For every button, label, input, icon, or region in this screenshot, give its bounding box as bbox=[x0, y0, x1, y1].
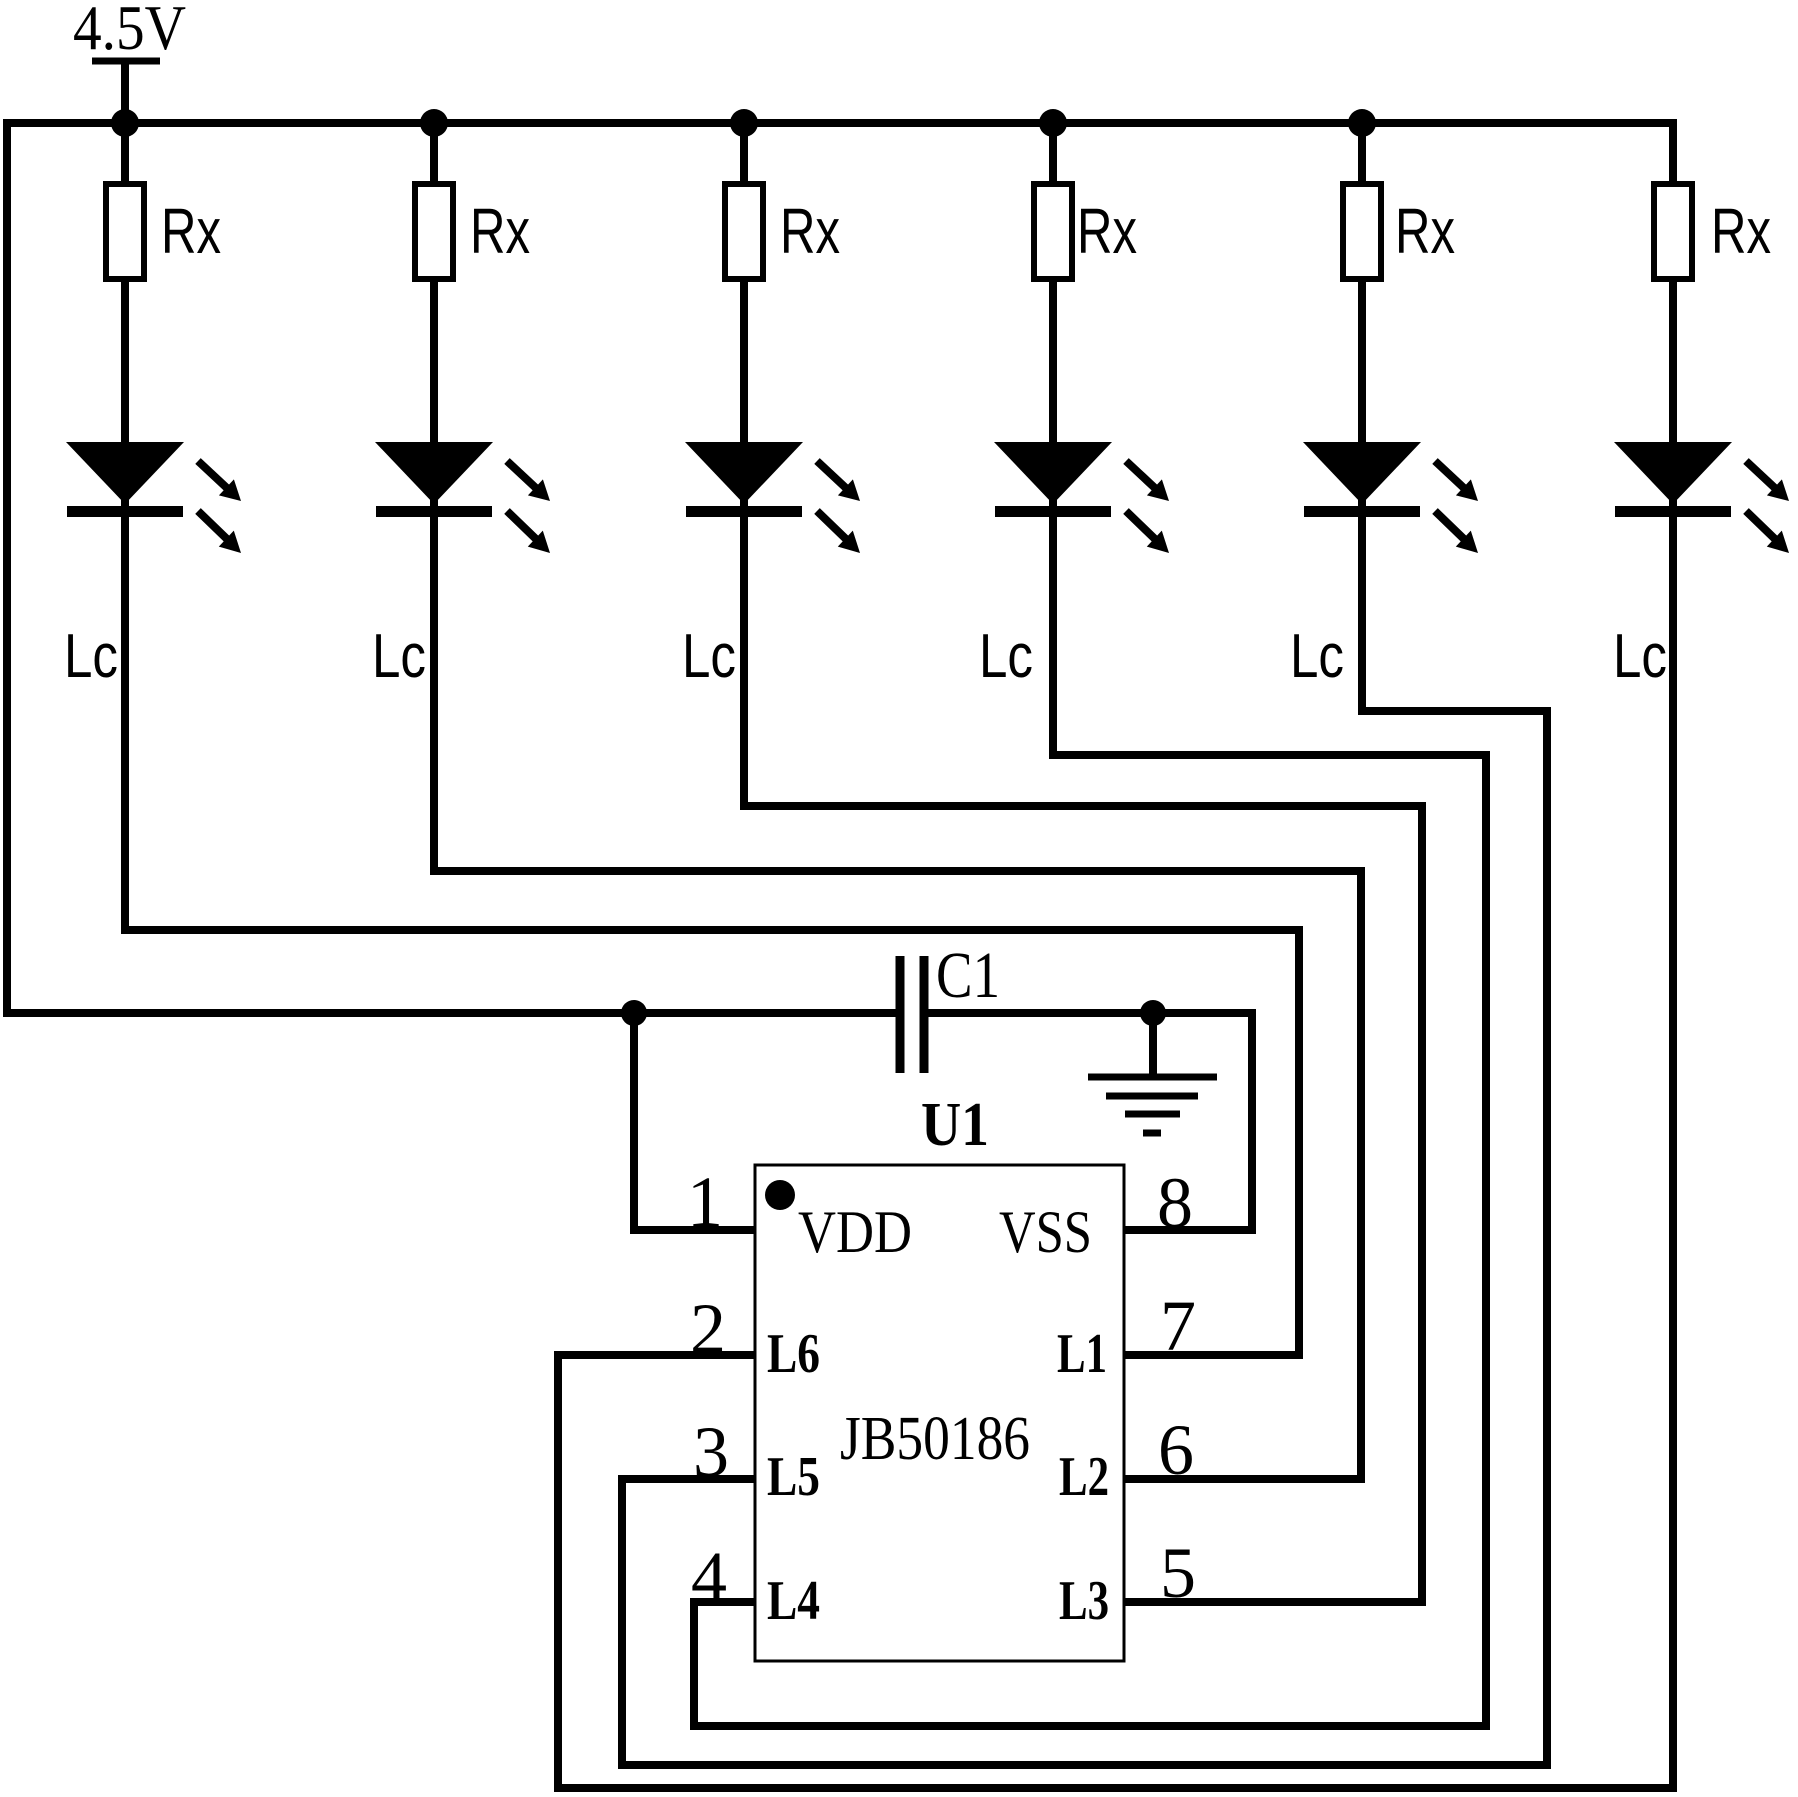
svg-text:L2: L2 bbox=[1059, 1446, 1109, 1508]
node rail junction 5 bbox=[1348, 109, 1376, 137]
wire branch 5 route LED5 to pin3 bbox=[622, 123, 1547, 1765]
svg-text:4.5V: 4.5V bbox=[73, 0, 186, 63]
svg-text:Lc: Lc bbox=[979, 622, 1033, 691]
resistor Rx 3 bbox=[725, 184, 763, 279]
svg-text:4: 4 bbox=[691, 1537, 727, 1617]
svg-text:1: 1 bbox=[687, 1162, 723, 1242]
wire stem from 4.5V to rail bbox=[121, 61, 129, 123]
LED Lc 3 bbox=[685, 442, 860, 553]
resistor Rx 5 bbox=[1343, 184, 1381, 279]
svg-text:5: 5 bbox=[1160, 1533, 1196, 1613]
wire branch 3 route LED3 to pin5 bbox=[744, 123, 1422, 1602]
wire branch 6 route LED6 to pin2 bbox=[558, 123, 1673, 1788]
svg-text:6: 6 bbox=[1158, 1410, 1194, 1490]
svg-text:Rx: Rx bbox=[780, 195, 840, 267]
svg-text:Rx: Rx bbox=[1395, 195, 1455, 267]
svg-text:Rx: Rx bbox=[1711, 195, 1771, 267]
LED Lc 1 bbox=[66, 442, 241, 553]
wire branch 1 route LED1 to pin7 bbox=[125, 123, 1299, 1355]
svg-text:Rx: Rx bbox=[470, 195, 530, 267]
svg-text:8: 8 bbox=[1157, 1163, 1193, 1243]
node rail junction 3 bbox=[730, 109, 758, 137]
wire top power rail bbox=[3, 119, 1677, 127]
svg-text:Rx: Rx bbox=[1077, 195, 1137, 267]
svg-text:C1: C1 bbox=[936, 939, 1000, 1012]
node VDD-C1 junction bbox=[621, 1000, 647, 1026]
wire ground stem bbox=[1149, 1013, 1157, 1077]
resistor Rx 2 bbox=[415, 184, 453, 279]
capacitor C1 plates bbox=[900, 956, 924, 1073]
svg-text:Lc: Lc bbox=[372, 622, 426, 691]
svg-text:7: 7 bbox=[1160, 1286, 1196, 1366]
wire branch 2 route LED2 to pin6 bbox=[434, 123, 1361, 1479]
node rail junction 1 bbox=[111, 109, 139, 137]
wire left VDD feed down to C1 row bbox=[7, 119, 898, 1013]
svg-text:Lc: Lc bbox=[64, 622, 118, 691]
node rail junction 4 bbox=[1039, 109, 1067, 137]
resistor Rx 1 bbox=[106, 184, 144, 279]
svg-text:Rx: Rx bbox=[161, 195, 221, 267]
LED Lc 5 bbox=[1303, 442, 1478, 553]
svg-text:JB50186: JB50186 bbox=[840, 1405, 1030, 1473]
svg-text:Lc: Lc bbox=[1613, 622, 1667, 691]
wire VDD node to pin1 bbox=[634, 1013, 755, 1230]
svg-text:L3: L3 bbox=[1059, 1570, 1109, 1632]
pin 1 marker dot bbox=[765, 1180, 795, 1210]
resistor Rx 6 bbox=[1654, 184, 1692, 279]
LED Lc 6 bbox=[1614, 442, 1789, 553]
node rail junction 2 bbox=[420, 109, 448, 137]
LED Lc 2 bbox=[375, 442, 550, 553]
svg-text:VSS: VSS bbox=[999, 1199, 1092, 1265]
svg-text:VDD: VDD bbox=[798, 1199, 912, 1265]
wire branch 4 route LED4 to pin4 bbox=[694, 123, 1486, 1726]
ground bbox=[1088, 1077, 1217, 1133]
svg-text:U1: U1 bbox=[921, 1091, 989, 1159]
svg-text:Lc: Lc bbox=[1290, 622, 1344, 691]
svg-text:L1: L1 bbox=[1057, 1323, 1107, 1385]
svg-text:3: 3 bbox=[693, 1412, 729, 1492]
power symbol 4.5V bar bbox=[92, 58, 160, 65]
wire C1 right to VSS pin8 bbox=[922, 1013, 1252, 1230]
svg-text:L4: L4 bbox=[767, 1570, 820, 1632]
resistor Rx 4 bbox=[1034, 184, 1072, 279]
svg-text:Lc: Lc bbox=[682, 622, 736, 691]
svg-text:L5: L5 bbox=[767, 1446, 820, 1508]
svg-text:L6: L6 bbox=[767, 1323, 820, 1385]
op-amp U1 IC body JB50186 bbox=[755, 1165, 1124, 1661]
svg-text:2: 2 bbox=[690, 1289, 726, 1369]
LED Lc 4 bbox=[994, 442, 1169, 553]
node VSS-ground junction bbox=[1140, 1000, 1166, 1026]
